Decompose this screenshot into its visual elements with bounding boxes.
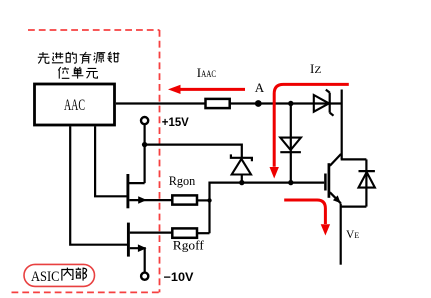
wire Q2 source to -10V [130, 248, 145, 272]
resistor RA on node A line [206, 99, 230, 108]
wire clamp diode vertical [290, 104, 292, 183]
wire emitter output VE [340, 204, 342, 265]
diode D2 clamp [280, 138, 301, 153]
title line2 元 [86, 68, 98, 78]
wire collector stub [341, 90, 343, 160]
label ASIC内部 oval [24, 264, 95, 286]
label IAAC [197, 65, 216, 80]
transistor Q2 [128, 223, 146, 257]
label 部 of 内部 [76, 268, 87, 281]
label 内 of 内部 [62, 268, 73, 281]
wire node A line right [230, 102, 342, 104]
title line2 单 [72, 67, 84, 79]
svg-text:Rgoff: Rgoff [173, 239, 205, 253]
label Iz [310, 61, 321, 76]
svg-text:AAC: AAC [64, 97, 85, 114]
resistor Rgon [169, 174, 197, 204]
wire AAC output to resistor (node A line left) [116, 102, 206, 104]
junction dot +15V rail [142, 142, 147, 147]
wire D1 anode to gate node line [241, 175, 243, 183]
ASIC boundary dashed box [12, 30, 160, 292]
current arrow emitter path [284, 200, 330, 236]
wire Rgon to node vertical [197, 199, 210, 201]
junction dot D1 anode [239, 180, 244, 185]
label A [255, 80, 265, 95]
resistor Rgoff [172, 228, 204, 252]
wire IGBT emitter bottom line [341, 206, 367, 208]
current arrow IAAC [168, 85, 245, 94]
zener D1 [231, 154, 252, 174]
current arrow Iz path [270, 84, 349, 178]
node A junction dot [255, 100, 262, 107]
zener D3 on node A line [314, 90, 334, 116]
svg-text:A: A [255, 80, 265, 95]
wire +15V rail to zener D1 [145, 145, 242, 158]
title line1 源 [94, 53, 106, 64]
wire +15V vertical to Q1 drain [128, 124, 145, 183]
wire Q2 drain to Rgoff [130, 232, 172, 234]
IGBT Q3 [325, 154, 341, 203]
title line1 有 [80, 52, 92, 64]
wire Rgoff to node vertical [197, 232, 210, 234]
title line1 先 [38, 52, 50, 63]
title line1 的 [66, 52, 76, 63]
label VE [346, 229, 359, 241]
transistor Q2 gate wire from AAC [70, 126, 127, 244]
svg-text:−10V: −10V [164, 270, 194, 284]
svg-text:VE: VE [346, 229, 359, 241]
wire gate node line [210, 183, 325, 234]
transistor Q1 [128, 174, 147, 208]
svg-text:+15V: +15V [162, 115, 189, 129]
svg-text:Rgon: Rgon [169, 174, 196, 188]
junction dot at clamp diode top [288, 101, 293, 106]
diode D4 freewheel [359, 171, 375, 188]
junction dot clamp diode bottom [288, 180, 293, 185]
wire IGBT collector top line [341, 158, 367, 160]
terminal -10V [141, 270, 193, 284]
title line1 进 [52, 52, 63, 62]
AAC block U1 [35, 84, 115, 125]
transistor Q1 gate wire from AAC [95, 126, 126, 196]
svg-text:ASIC: ASIC [31, 269, 60, 285]
junction dot Rgon tee [207, 198, 211, 202]
title line1 钳 [107, 52, 119, 62]
terminal +15V [141, 115, 189, 129]
wire freewheel diode vertical [365, 159, 367, 206]
title line2 位 [58, 67, 69, 79]
wire Q1 source to Rgon [129, 199, 172, 201]
